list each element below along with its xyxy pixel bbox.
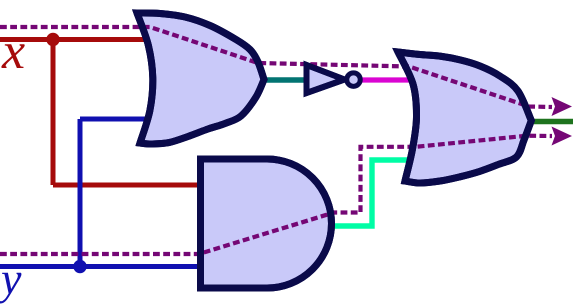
wire y vertical branch [78,119,83,267]
wire green OR2 output [524,119,573,125]
wire spring-green AND output to OR2 input [332,160,414,226]
junction on y wire [73,260,86,273]
OR gate U1 outline overlay [137,13,264,144]
svg-text:x: x [1,23,25,80]
junction on x wire [46,33,59,46]
arrowhead output top [552,97,573,116]
NOT gate U2 outline overlay [307,65,345,93]
wire y input horizontal [0,264,205,269]
wire x input horizontal [0,37,152,42]
dashed signal path through OR1 and OR2 top [0,27,552,107]
OR gate U4 [398,52,531,183]
OR gate U1 [137,13,264,144]
wire x to AND input [53,183,205,188]
NOT gate U2 [307,65,345,93]
AND gate U3 [201,159,332,288]
svg-text:y: y [0,253,22,304]
OR gate U4 outline overlay [398,52,531,183]
NOT gate bubble [347,73,361,87]
wire y to OR1 input [80,117,152,122]
wire x vertical branch [51,40,56,186]
dashed signal path through AND and OR2 bottom [0,136,552,254]
arrowhead output bottom [552,127,573,146]
wire magenta NOT output to OR2 input [362,77,416,82]
AND gate U3 outline overlay [201,159,332,288]
wire teal OR1 output to NOT input [255,77,309,83]
